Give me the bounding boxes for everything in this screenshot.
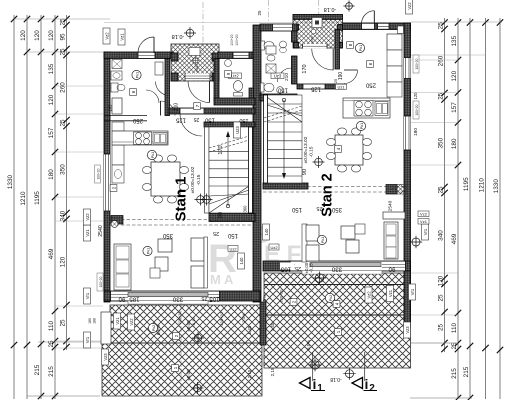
Uz2 box right living [269,244,279,250]
svg-text:-0.15: -0.15 [196,174,202,185]
svg-text:2,15: 2,15 [247,369,252,378]
Uz3 box left stair [234,122,241,138]
svg-text:25: 25 [257,10,262,16]
svg-text:Vr1: Vr1 [410,288,415,295]
chairs right table [326,138,335,145]
svg-text:120: 120 [413,92,418,100]
svg-text:-0,15: -0,15 [309,263,314,273]
room circle Pk2 terrace left [148,323,157,332]
elevation marker top right [346,3,353,10]
svg-text:Vz3: Vz3 [103,353,108,361]
svg-text:350: 350 [438,137,445,148]
svg-text:135: 135 [48,63,55,74]
svg-text:-0.18: -0.18 [172,33,185,39]
svg-text:120: 120 [34,30,41,41]
svg-text:120: 120 [60,256,67,267]
room circle Pk1 right dining [356,121,365,130]
svg-text:340: 340 [60,210,67,221]
wall stub left of party wall [249,88,254,99]
room circle Pk1 kitchen left [132,70,141,79]
svg-text:Vz1: Vz1 [85,229,90,237]
door divider wall opening left [165,82,170,96]
room tag 7 left [194,103,201,110]
closet bedroom left [155,62,163,75]
Vz2 box left margin [84,209,91,225]
svg-text:25: 25 [438,294,445,302]
circle X marker left pier [111,221,118,228]
entry door arc right into hall [332,49,334,70]
svg-text:Uz3: Uz3 [274,73,282,78]
overhang dashes left unit [110,219,253,221]
svg-text:25: 25 [438,186,445,194]
room tag 1 terrace left [172,365,179,372]
dining table left [151,162,180,196]
svg-text:25: 25 [60,119,67,127]
svg-text:2,0%: 2,0% [241,313,246,323]
svg-text:Uz1: Uz1 [337,84,345,89]
svg-text:150: 150 [277,87,288,93]
svg-text:25: 25 [438,92,445,100]
bottom wall left unit [104,291,260,301]
counter left kitchen vertical [112,122,124,131]
svg-text:215: 215 [463,366,470,377]
elevation marker terrace right [315,274,324,283]
svg-text:120: 120 [48,94,55,105]
svg-text:±0,00: ±0,00 [310,36,314,44]
threshold step left [128,301,208,305]
svg-text:1,45: 1,45 [247,325,252,334]
door bedroom left [160,101,162,116]
tiny 100+20 boxes [95,165,101,183]
svg-text:±0.00=13.02: ±0.00=13.02 [190,166,196,193]
entry door arc left into hall [209,81,211,102]
porch left door opening [185,74,210,81]
porch right marker [311,29,316,34]
svg-text:125: 125 [310,86,321,92]
svg-text:185: 185 [129,296,140,303]
outer wall left [104,52,110,302]
svg-text:Vz1: Vz1 [420,219,428,224]
svg-text:25: 25 [201,295,207,301]
Vz boxes right wall [418,211,429,217]
wc wall right unit bottom [260,94,297,101]
svg-text:0,5%: 0,5% [156,325,161,335]
dimension chains right [438,18,504,400]
kitchen counter band right [343,98,390,118]
svg-text:25: 25 [48,340,55,348]
toilet left wc [111,83,118,92]
svg-text:Vz2: Vz2 [105,32,110,40]
svg-text:105: 105 [280,266,291,273]
fridge left kitchen [112,98,122,114]
tv bench left living [191,238,204,261]
svg-text:0,5%: 0,5% [306,340,311,350]
svg-text:110: 110 [48,320,55,331]
svg-text:25: 25 [194,116,200,122]
outer wall right [404,23,411,271]
svg-text:2: 2 [369,383,375,394]
svg-text:Pk1: Pk1 [360,123,364,129]
door arc right wc [278,68,292,82]
svg-text:360: 360 [243,205,248,213]
left stair shaft walls [204,122,255,127]
Vz1 box terrace right [387,286,394,302]
sofa right living [384,222,398,259]
svg-text:Vz1: Vz1 [388,289,393,297]
terrace hatch left upper [110,305,262,343]
coffee tables left living [158,239,172,252]
svg-text:469: 469 [451,233,458,244]
toilet right wc lower [261,83,265,92]
window left wall [104,154,110,211]
sink right kitchen [375,102,388,116]
stair left arrow [227,134,229,206]
porch right corner piers [294,25,299,31]
svg-text:90: 90 [118,296,125,303]
terrace hatch left lower [102,343,262,396]
door arc entry left [138,37,154,53]
porch left doormat [189,48,200,56]
svg-text:100+20: 100+20 [99,276,103,287]
svg-text:250: 250 [365,82,376,88]
sink right wc lower [277,87,284,94]
top wall left unit [104,52,173,59]
svg-text:105: 105 [209,296,220,303]
svg-text:1,45: 1,45 [270,322,275,331]
Vr1 box left margin [84,288,91,304]
top wall left unit right of porch [218,52,255,59]
svg-text:1195: 1195 [34,191,41,205]
window wc top wall [273,24,293,30]
party wall center [253,25,261,302]
room tag 6 left [130,89,137,96]
svg-text:340: 340 [438,230,445,241]
svg-text:220+20: 220+20 [178,312,182,325]
porch right top band [293,15,343,20]
elevation marker bottom left [194,384,202,392]
svg-text:180: 180 [48,169,55,180]
room circle Pk1 living left [143,246,152,255]
elevation right wall [412,238,420,246]
right wall strip to terrace [404,271,411,328]
centerline top right unit [318,0,320,14]
room tag 8 right [347,42,354,49]
corner box right [398,26,404,34]
svg-text:-0.18: -0.18 [324,6,337,12]
porch left marker [193,58,198,63]
toilet right wc top [261,41,265,50]
svg-text:25: 25 [316,205,322,211]
svg-text:150: 150 [204,117,215,123]
Vz box top right [406,0,413,14]
svg-text:150: 150 [227,232,238,238]
entry door top right unit [362,24,375,29]
svg-text:90: 90 [388,266,395,273]
svg-text:-0.18: -0.18 [330,376,342,382]
svg-text:Vz3: Vz3 [405,326,410,334]
overhang dashes right unit [263,186,406,188]
svg-text:350: 350 [60,164,67,175]
dining table right [335,135,363,165]
svg-text:Pk2: Pk2 [329,295,333,301]
svg-text:350: 350 [162,232,173,238]
svg-text:100+20: 100+20 [415,58,419,69]
Vz2 box terrace right [365,287,372,303]
room tag 9 left [225,71,232,78]
room circle Pk1 right living [317,235,326,244]
Uz2 box left wc2 [229,73,242,79]
door arc wc1 left [146,90,159,103]
stair left break line [209,140,249,152]
terrace line right a [264,284,411,286]
room circle Pk1 dining left [147,150,156,159]
room tag 2 terrace left [173,333,180,340]
svg-text:Uz3: Uz3 [235,126,240,134]
svg-text:2,15: 2,15 [270,367,275,376]
Vz1 box terrace left [114,313,121,329]
right stair shaft bottom wall [263,183,308,189]
svg-text:Vz2: Vz2 [407,2,412,10]
threshold step right [302,271,382,275]
svg-text:170: 170 [302,64,308,73]
svg-text:Vz2: Vz2 [129,318,134,326]
elevation marker terrace left [194,334,202,342]
svg-text:210: 210 [284,73,290,81]
room tag 6 right [367,61,374,68]
left unit bedroom partition wall [104,115,147,117]
sink left kitchen [153,133,167,145]
glass door slider left [128,293,208,297]
svg-text:1330: 1330 [493,179,500,194]
pier left living top [111,216,123,225]
Vr1 box right margin [422,224,429,240]
box Uz2 living right [228,246,238,252]
svg-text:Pk1: Pk1 [359,45,363,51]
svg-text:25: 25 [60,319,67,327]
svg-text:150: 150 [239,117,248,123]
svg-text:Uz2: Uz2 [231,73,239,78]
svg-text:150: 150 [291,206,302,212]
left unit divider wall [165,59,170,116]
stair right arrow [283,100,285,176]
svg-text:1210: 1210 [479,178,486,193]
svg-text:Pk1: Pk1 [151,152,155,158]
svg-text:±0.00=13.02: ±0.00=13.02 [303,136,309,163]
sink right wc top [280,41,287,48]
svg-text:350: 350 [331,206,342,212]
bottom wall right unit [263,261,411,271]
entry door opening left [138,53,155,58]
svg-text:140: 140 [264,228,269,236]
svg-text:125: 125 [175,117,186,123]
porch right doormat [312,18,322,28]
svg-text:100+20: 100+20 [96,168,100,179]
svg-text:Pk1: Pk1 [136,72,140,78]
svg-text:Vz1: Vz1 [115,317,120,325]
door arc right hall to kitchen [344,70,358,84]
room tag 4 right [335,146,342,153]
svg-text:2540: 2540 [388,200,394,211]
svg-text:25: 25 [213,230,219,236]
svg-text:110: 110 [451,322,458,333]
svg-text:90: 90 [218,212,224,218]
counter strip along window left [112,145,124,165]
svg-text:157: 157 [48,127,55,138]
svg-text:25: 25 [438,324,445,332]
svg-text:100+20: 100+20 [235,34,239,46]
left stair lower wall hatched [209,214,255,222]
svg-text:250: 250 [132,117,143,123]
window top wall left unit [233,53,249,58]
stair right break line [264,106,302,118]
svg-text:120: 120 [451,70,458,81]
Vr1 box left lower [84,332,91,348]
svg-text:Vr1: Vr1 [85,336,90,343]
svg-text:Pk1: Pk1 [147,248,151,254]
right unit inner wall near kitchen [297,84,344,89]
svg-text:120: 120 [20,30,27,41]
Vz3 box right bottom [404,322,411,338]
svg-text:1210: 1210 [20,191,27,206]
svg-text:1195: 1195 [463,177,470,191]
svg-text:210: 210 [174,103,180,112]
porch right hatch [293,15,343,49]
Vz2 box top left [103,28,110,44]
room tag 2 terrace right [290,299,297,306]
section marker i2 [352,378,363,389]
pier right living top [386,185,397,195]
svg-text:95: 95 [60,33,67,41]
svg-text:Uz2: Uz2 [229,246,237,251]
wc right fixtures [266,46,276,54]
sofa left living [114,244,131,290]
svg-text:220+20: 220+20 [219,312,224,326]
section cut lines [312,352,314,381]
opening in hall wall [180,109,204,114]
terrace hatch right [264,273,411,368]
svg-text:215: 215 [451,368,458,379]
door arc hall left [180,114,202,136]
svg-text:100+20: 100+20 [230,34,234,46]
svg-text:Vr1: Vr1 [423,228,428,235]
svg-text:140: 140 [239,257,244,265]
svg-text:25: 25 [295,265,301,271]
svg-text:1: 1 [317,383,323,394]
hob right [354,101,373,117]
hob left [134,132,152,145]
hall lower wall left [169,108,255,114]
room tag 1 terrace right [335,329,342,336]
svg-text:Pk1: Pk1 [321,237,325,243]
left wc inner wall [214,59,219,101]
svg-text:469: 469 [48,248,55,259]
svg-text:330: 330 [331,266,342,273]
svg-text:2540: 2540 [98,225,104,237]
terrace line right b [264,314,411,316]
Vr1 box right wall [409,284,416,300]
svg-text:135: 135 [451,35,458,46]
dimension chains left [7,15,69,399]
room tag 4 terrace right [333,301,340,308]
svg-text:188: 188 [93,318,97,324]
centerline bottom terrace [180,303,182,395]
party wall strip to terrace [260,302,266,345]
windows right wall [404,58,411,79]
kitchen counter band left [112,131,168,145]
porch left corner piers [171,53,178,61]
washer left wc [112,60,122,69]
centerline wc right [268,0,270,24]
porch right door opening [303,44,328,48]
svg-text:Stan 1: Stan 1 [173,176,190,221]
svg-text:330: 330 [172,296,183,303]
stair left rail [249,127,253,213]
svg-text:i: i [365,376,369,392]
svg-text:120: 120 [48,30,55,41]
svg-text:215: 215 [34,364,41,375]
svg-text:90: 90 [302,169,308,175]
tv bench right living [306,225,319,241]
centerline top left unit [202,2,204,52]
stair right unit [264,95,302,183]
svg-text:180: 180 [413,128,419,136]
elevation marker hatch edge [311,361,319,369]
windows top wall right unit [378,24,390,29]
top wall right unit [343,23,411,30]
svg-text:-0.15: -0.15 [309,146,315,157]
section marker i1 [300,378,311,389]
openings bottom wall right [290,262,406,271]
room circle Pk1 right hall [355,43,364,52]
Vz1 box left margin [84,225,91,241]
elevation marker bottom center [346,370,354,378]
svg-text:Vz2: Vz2 [420,212,428,217]
coffee tables right living [341,226,355,239]
Vz1 box top left [118,29,125,45]
svg-text:170: 170 [218,145,224,154]
svg-text:180: 180 [451,138,458,149]
left wc2 fixtures [225,60,232,67]
svg-text:100+20: 100+20 [415,104,419,115]
svg-text:180: 180 [88,318,92,324]
svg-text:190: 190 [338,72,344,81]
svg-text:220+20: 220+20 [280,290,284,303]
svg-text:215: 215 [48,366,55,377]
openings bottom wall left [111,292,220,301]
svg-text:25: 25 [438,22,445,30]
dashed planter rect left [101,312,111,344]
svg-text:157: 157 [451,102,458,113]
stair left unit [209,127,249,213]
svg-text:M A: M A [210,272,234,287]
right unit hall wall vertical [335,30,340,70]
porch left hatch [171,44,219,81]
svg-text:±0,00: ±0,00 [195,64,199,72]
Uz1 box right wall [336,84,347,89]
elevation marker right unit floor [315,158,323,166]
stair right rail [264,95,268,183]
svg-text:260: 260 [60,82,67,93]
svg-text:Vz1: Vz1 [120,33,125,41]
svg-text:±0,00: ±0,00 [186,369,191,381]
svg-text:Vr1: Vr1 [85,292,90,299]
svg-text:120: 120 [438,275,445,286]
svg-text:-0,15: -0,15 [191,317,196,327]
Vz2 box terrace left [128,314,135,330]
sink left wc [111,71,122,80]
svg-text:Vz2: Vz2 [85,213,90,221]
chairs left table [142,166,151,173]
